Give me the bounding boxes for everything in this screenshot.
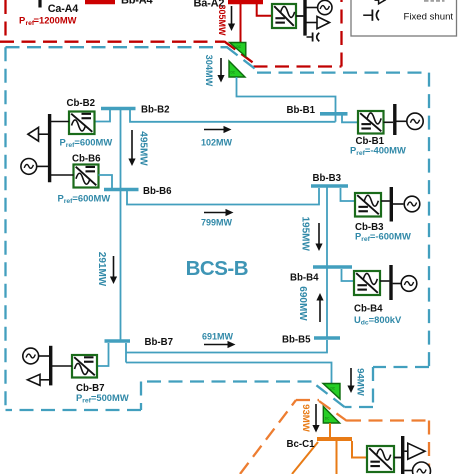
svg-text:691MW: 691MW bbox=[202, 332, 234, 342]
svg-text:305MW: 305MW bbox=[217, 4, 227, 36]
svg-text:94MW: 94MW bbox=[354, 368, 365, 397]
svg-text:Bc-C1: Bc-C1 bbox=[287, 439, 316, 450]
svg-text:195MW: 195MW bbox=[299, 216, 310, 251]
svg-text:Bb-B2: Bb-B2 bbox=[141, 105, 170, 116]
svg-text:Bb-B3: Bb-B3 bbox=[313, 173, 342, 184]
svg-text:DC: DC bbox=[325, 417, 330, 421]
svg-text:DC: DC bbox=[331, 387, 336, 391]
svg-text:93MW: 93MW bbox=[300, 404, 311, 433]
svg-text:Bb-B6: Bb-B6 bbox=[143, 186, 172, 197]
svg-text:Cb-B6: Cb-B6 bbox=[72, 154, 101, 165]
svg-text:Cb-B4: Cb-B4 bbox=[354, 304, 383, 315]
svg-text:Bb-B4: Bb-B4 bbox=[290, 273, 319, 284]
svg-text:495MW: 495MW bbox=[137, 131, 148, 166]
svg-text:DC: DC bbox=[231, 71, 236, 75]
svg-text:291MW: 291MW bbox=[96, 252, 107, 287]
svg-text:304MW: 304MW bbox=[204, 55, 214, 87]
svg-text:Bb-B5: Bb-B5 bbox=[282, 335, 311, 346]
svg-text:Bb-B1: Bb-B1 bbox=[287, 105, 316, 116]
svg-text:690MW: 690MW bbox=[297, 286, 308, 321]
svg-text:Fixed shunt: Fixed shunt bbox=[404, 12, 454, 23]
svg-text:799MW: 799MW bbox=[201, 217, 233, 227]
svg-text:P: P bbox=[19, 14, 25, 25]
svg-text:102MW: 102MW bbox=[201, 138, 233, 148]
svg-text:Ca-A4: Ca-A4 bbox=[48, 3, 78, 15]
svg-text:DC: DC bbox=[237, 45, 242, 49]
svg-text:Bb-A4: Bb-A4 bbox=[121, 0, 153, 7]
svg-text:=1200MW: =1200MW bbox=[34, 14, 77, 25]
svg-text:Bb-B7: Bb-B7 bbox=[145, 337, 174, 348]
svg-text:BCS-B: BCS-B bbox=[186, 257, 248, 280]
svg-text:Cb-B2: Cb-B2 bbox=[67, 98, 96, 109]
